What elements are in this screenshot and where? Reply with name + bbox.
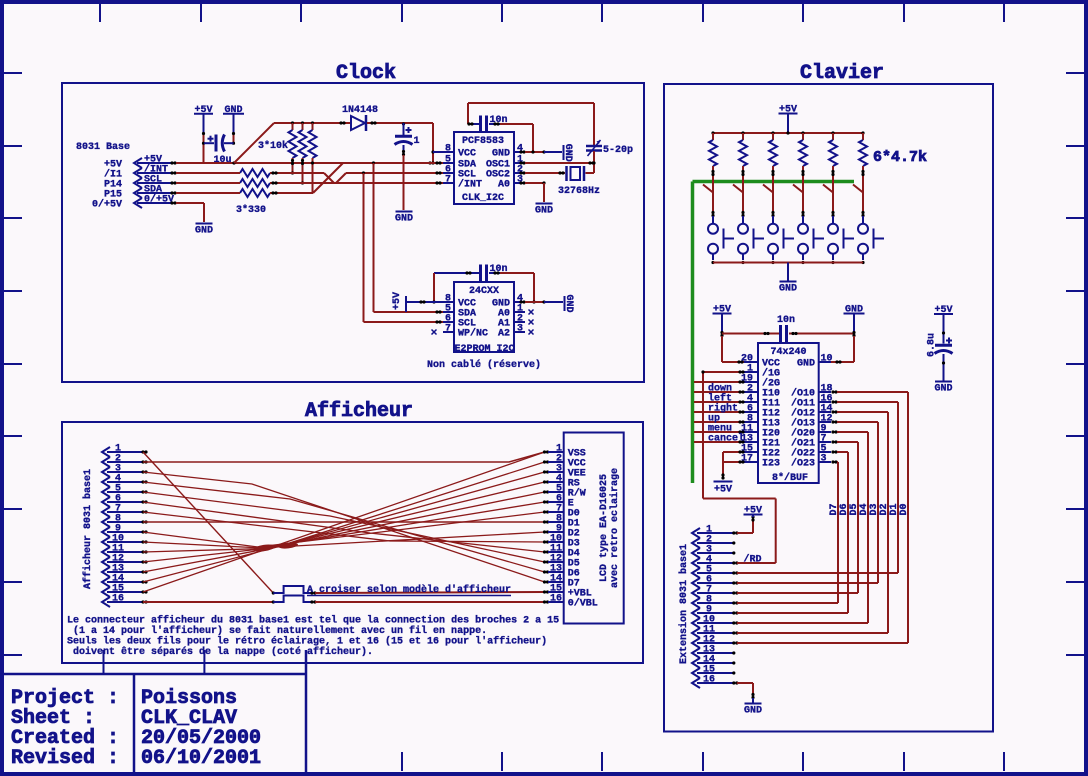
- wire +5V diagonal rise to diode row: [234, 123, 274, 163]
- svg-text:A2: A2: [498, 329, 510, 340]
- wire +5V row from connector: [176, 161, 433, 164]
- connector J2 pin 8: [102, 514, 148, 528]
- wire /2G row from green bus: [694, 380, 745, 383]
- power +5V symbol (below U3): [714, 482, 733, 496]
- wire output /O10 vertical: [831, 390, 908, 643]
- wire keyboard ground bus: [713, 262, 863, 264]
- wire VCC pin 8 branch: [433, 151, 454, 153]
- wire C3 right to GND pin 4 of U1: [500, 124, 533, 153]
- connector J4 pin 2 VCC: [543, 454, 586, 470]
- capacitor C5 10n (U2 decoupling): [434, 264, 508, 282]
- wire output /O21 vertical: [831, 440, 858, 593]
- wire C2 bottom to ground: [402, 150, 405, 210]
- wire 0/+5V row to ground: [176, 203, 204, 222]
- wire output /O22 vertical: [831, 450, 848, 613]
- svg-text:5-20p: 5-20p: [603, 145, 633, 156]
- wire key signal left: [694, 393, 745, 405]
- label Non cable (reserve): [427, 359, 541, 371]
- connector J1 pin 0/+5V (row 0/+5V): [92, 194, 177, 211]
- connector J3 pin 1: [692, 525, 735, 539]
- wire OSC2 row to crystal: [519, 171, 565, 174]
- connector J2 pin 14: [102, 574, 148, 588]
- resistor network R2 3*330: [236, 169, 270, 216]
- svg-text:GND: GND: [395, 214, 413, 225]
- svg-text:32768Hz: 32768Hz: [558, 186, 600, 197]
- svg-text:3*330: 3*330: [236, 204, 266, 216]
- svg-text:GND: GND: [492, 149, 510, 160]
- connector J2 pin 7: [102, 504, 148, 518]
- svg-text:avec retro eclairage: avec retro eclairage: [609, 468, 621, 588]
- wire output /O11 vertical: [831, 400, 898, 573]
- connector J4 pin 8 D1: [543, 514, 580, 530]
- wire J3 pin10 data line: [735, 621, 868, 624]
- U2 right pin stubs and numbers: [514, 294, 525, 335]
- U3 right pin stubs and numbers: [819, 354, 833, 465]
- wire J3 pin12 data line: [735, 641, 908, 644]
- wire GND pin4 row of U1: [519, 150, 562, 153]
- wire R1c pulldown lead: [311, 158, 314, 193]
- connector J4 pin 7 D0: [543, 504, 580, 520]
- svg-text:8031 Base: 8031 Base: [76, 142, 130, 153]
- svg-text:Clock: Clock: [336, 62, 396, 85]
- svg-text:74x240: 74x240: [771, 347, 807, 358]
- svg-text:7: 7: [445, 324, 451, 335]
- wire 0/VBL to LCD pin16: [315, 601, 545, 603]
- wire A0 pin to ground: [519, 181, 545, 202]
- capacitor C3 10n: [467, 115, 507, 133]
- wire switch SW3 to ground bus: [771, 254, 774, 264]
- title block frame: [0, 650, 306, 774]
- wire ribbon pin1 backlight diagonal: [143, 452, 275, 595]
- wire J3 pin5 data line: [735, 571, 898, 574]
- wire ribbon pin2: [143, 452, 545, 462]
- data bus labels D7..D0: [829, 503, 910, 515]
- connector J2 pin 3: [102, 464, 148, 478]
- svg-text:10: 10: [821, 354, 833, 365]
- wire J3 pin8 data line: [735, 601, 838, 604]
- wire +5V down to VCC pin 20 of U3: [720, 331, 744, 364]
- power +5V symbol (J3 pin1): [744, 506, 763, 517]
- title block labels: [11, 687, 119, 770]
- wire ribbon pin9: [143, 512, 545, 547]
- connector J2 pin 9: [102, 524, 148, 538]
- IC U2 24CXX: [454, 282, 515, 355]
- label LCD type EA-D16025: [599, 474, 610, 582]
- wire ribbon pin3: [143, 472, 545, 582]
- wire trimmer bottom lead to OSC2: [592, 151, 595, 173]
- wire diode cathode to node: [367, 121, 433, 125]
- wire +5V bus over keyboard resistors: [711, 131, 864, 134]
- wire trimmer top lead: [593, 103, 595, 145]
- connector J3 pin 8: [692, 595, 735, 609]
- title block values: [141, 687, 261, 770]
- wire +5V lead down to cap C1: [202, 132, 205, 163]
- wire OSC1 row: [519, 161, 594, 164]
- wire J3 pin7 data line: [735, 591, 858, 594]
- Clock section box: [62, 83, 644, 382]
- connector J4 pin 12 D5: [543, 554, 580, 570]
- wire switch SW1 to ground bus: [711, 254, 714, 264]
- connector J1 pin SCL (row P14): [104, 175, 177, 191]
- crystal X1 32768Hz: [558, 166, 600, 197]
- wire ribbon pin16 0/VBL: [143, 600, 275, 603]
- connector J2 pin 2: [102, 454, 148, 468]
- ground symbol right of U2 (rotated): [563, 294, 574, 312]
- connector J2 pin 10: [102, 534, 148, 548]
- wire key signal down: [694, 383, 745, 395]
- svg-text:doivent être séparés de la nap: doivent être séparés de la nappe (coté a…: [73, 646, 373, 658]
- connector J4 pin 9 D2: [543, 524, 580, 540]
- wire ground lead of keyboard: [787, 263, 789, 282]
- wire C5 right lead down to GND of U2: [500, 273, 536, 304]
- wire SDA drop to U2: [372, 161, 443, 313]
- ground symbol below C2: [395, 212, 413, 225]
- connector J1 8031 Base label: [76, 142, 130, 153]
- Afficheur section box: [62, 422, 643, 663]
- svg-text:24CXX: 24CXX: [469, 286, 499, 297]
- wire R1b pulldown lead: [301, 158, 304, 185]
- connector J2 pin 5: [102, 484, 148, 498]
- wire output /O20 vertical: [831, 430, 868, 623]
- resistor network R1 3*10k: [258, 123, 317, 158]
- connector J2 pin 15: [102, 584, 148, 598]
- svg-text:8*/BUF: 8*/BUF: [772, 472, 808, 484]
- svg-text:GND: GND: [535, 206, 553, 217]
- wire SDA row from connector to R2c: [176, 192, 240, 194]
- wire ribbon pin10: [143, 502, 545, 548]
- ground symbol below A0: [535, 204, 553, 217]
- Afficheur title: [305, 400, 413, 423]
- svg-text:1N4148: 1N4148: [342, 105, 378, 116]
- no-connect marks on U2 pins: [432, 310, 534, 335]
- wire crossing knot: [253, 542, 299, 553]
- svg-text:06/10/2001: 06/10/2001: [141, 747, 261, 770]
- connector J3 Extension 8031 base1 label: [678, 544, 690, 664]
- svg-text:/INT: /INT: [458, 179, 482, 191]
- IC U3 74x240: [758, 343, 819, 484]
- ground symbol right of U1 (rotated): [562, 144, 573, 162]
- connector J3 pin 16: [692, 675, 735, 689]
- wire J3 pin6 data line: [735, 581, 878, 584]
- wire SCL row from connector to R2b: [176, 182, 240, 184]
- svg-text:0/VBL: 0/VBL: [568, 598, 598, 610]
- wire SCL after R2b with crossover up: [270, 171, 443, 184]
- U3 left pin stubs and numbers: [741, 354, 758, 465]
- switch SW2: [738, 224, 764, 254]
- connector J2 pin 6: [102, 494, 148, 508]
- connector J4 pin 11 D4: [543, 544, 580, 560]
- svg-text:WP/NC: WP/NC: [458, 328, 488, 340]
- wire ribbon pin7: [143, 512, 545, 542]
- power +5V symbol (rotated, U2): [392, 292, 406, 312]
- wire GND down to pin 10 of U3: [831, 331, 856, 364]
- connector J4 pin 3 VEE: [543, 464, 586, 480]
- connector J4 LCD box: [564, 433, 624, 624]
- connector J3 pin 9: [692, 605, 735, 619]
- wire output /O23 vertical: [831, 460, 838, 603]
- svg-text:0/+5V: 0/+5V: [92, 199, 122, 211]
- capacitor C6 10n (U3 decoupling): [722, 315, 854, 342]
- wire switch SW5 to ground bus: [831, 254, 834, 264]
- connector J3 pin 15: [692, 665, 735, 679]
- wire switch SW2 to ground bus: [741, 254, 744, 264]
- svg-text:Non cablé (réserve): Non cablé (réserve): [427, 359, 541, 371]
- svg-text:10n: 10n: [777, 315, 795, 326]
- connector J3 pin 3: [692, 545, 735, 559]
- connector J3 pin 12: [692, 635, 735, 649]
- connector J4 pin 5 R/W: [543, 484, 586, 500]
- connector J3 pin 5: [692, 565, 735, 579]
- svg-text:(1 a 14 pour l'afficheur) se f: (1 a 14 pour l'afficheur) se fait nature…: [73, 625, 487, 637]
- svg-text:/O23: /O23: [791, 458, 815, 470]
- wire C5 left lead down to VCC of U2: [432, 273, 435, 304]
- wire ribbon pin4: [143, 482, 545, 572]
- wire vertical node to VCC pin 8 of U1: [428, 123, 434, 165]
- svg-text:Afficheur 8031 base1: Afficheur 8031 base1: [82, 469, 94, 589]
- connector J1 pin +5V (row +5V): [104, 155, 177, 171]
- svg-text:D0: D0: [899, 503, 910, 515]
- wire J3 pin16 to ground: [735, 681, 754, 703]
- wire J3 pin9 data line: [735, 611, 848, 614]
- wire ribbon pin15: [143, 452, 545, 592]
- connector J3 pin 13: [692, 645, 735, 659]
- svg-text:A croiser selon modèle d'affic: A croiser selon modèle d'afficheur: [307, 584, 511, 596]
- capacitor C7 6.8u with +5V and GND: [927, 305, 954, 395]
- svg-text:GND: GND: [562, 144, 573, 162]
- diode D1 1N4148: [342, 105, 378, 131]
- wire ribbon pin8: [143, 521, 545, 523]
- IC U1 PCF8583: [454, 132, 514, 204]
- svg-text:GND: GND: [195, 226, 213, 237]
- wire ribbon pin5: [143, 492, 545, 562]
- wire R1a pulldown lead: [291, 158, 294, 175]
- U1 right pin stubs and numbers: [514, 144, 525, 186]
- svg-text:GND: GND: [934, 384, 952, 395]
- svg-text:GND: GND: [797, 359, 815, 370]
- wire switch SW6 to ground bus: [861, 254, 864, 264]
- wire output /O12 vertical: [831, 410, 888, 633]
- connector J2 pin 1: [102, 444, 148, 458]
- wire keyboard column 1: [703, 166, 715, 224]
- twist symbol on 0/VBL wire: [273, 596, 316, 604]
- label avec retro eclairage: [609, 468, 621, 588]
- wire output /O13 vertical: [831, 420, 878, 583]
- svg-text:PCF8583: PCF8583: [462, 136, 504, 147]
- wire key signal menu: [694, 424, 745, 435]
- wire key signal up: [694, 414, 745, 425]
- ground symbol (J3 pin16): [744, 704, 762, 717]
- svg-text:VCC: VCC: [458, 149, 476, 160]
- connector J2 pin 13: [102, 564, 148, 578]
- svg-text:cancel: cancel: [708, 433, 744, 445]
- connector J4 pin 16 0/VBL: [543, 594, 598, 610]
- connector J4 pin 4 RS: [543, 474, 580, 490]
- U2 left pin stubs and numbers: [443, 294, 454, 335]
- capacitor C2 1 (electrolytic): [395, 123, 420, 152]
- svg-text:+5V: +5V: [392, 292, 403, 310]
- connector J1 pin SDA (row P15): [104, 185, 177, 201]
- connector J1 pin /INT (row /I1): [104, 164, 177, 181]
- wire ribbon pin14: [143, 462, 545, 582]
- note paragraph: [67, 615, 559, 659]
- ground symbol below keyboard: [779, 282, 797, 295]
- connector J4 pin 1 VSS: [543, 444, 586, 460]
- svg-text:I23: I23: [762, 459, 780, 470]
- wire GND pin4 of U2: [519, 300, 563, 303]
- wire unused inputs I22 I23 to +5V: [721, 450, 744, 479]
- svg-text:GND: GND: [563, 294, 574, 312]
- svg-text:GND: GND: [779, 284, 797, 295]
- trimmer capacitor C4 5-20p: [586, 140, 633, 156]
- wire SDA after R2c with crossover up to U1: [270, 161, 443, 194]
- svg-text:CLK_I2C: CLK_I2C: [462, 193, 504, 204]
- wire keyboard column 4: [793, 166, 805, 224]
- power +5V symbol (keyboard): [779, 105, 798, 134]
- wire ribbon pin13: [143, 472, 545, 572]
- wire diode row to pullups and D1: [274, 121, 351, 124]
- svg-text:3*10k: 3*10k: [258, 140, 288, 152]
- connector J3 pin 4: [692, 555, 735, 569]
- svg-text:Le connecteur afficheur du 803: Le connecteur afficheur du 8031 base1 es…: [67, 615, 559, 627]
- twist symbol on +VBL wire: [273, 586, 316, 595]
- connector J2 Afficheur 8031 base1 label: [82, 469, 94, 589]
- connector J2 pin 11: [102, 544, 148, 558]
- svg-text:7: 7: [445, 175, 451, 186]
- wire keyboard column 5: [823, 166, 835, 224]
- connector J2 pin 16: [102, 594, 148, 608]
- label A croiser selon modele d'afficheur: [307, 584, 511, 596]
- svg-text:Extension 8031 base1: Extension 8031 base1: [678, 544, 690, 664]
- svg-text:8: 8: [445, 144, 451, 155]
- svg-text:Afficheur: Afficheur: [305, 400, 413, 423]
- Clavier section box: [664, 84, 993, 732]
- svg-text:/RD: /RD: [744, 554, 762, 566]
- connector J3 pin 2: [692, 535, 735, 549]
- power GND symbol (top of Clock): [223, 105, 244, 133]
- wire /INT after R2a with crossover down: [270, 171, 443, 184]
- wire SCL drop to U2: [362, 171, 443, 323]
- Clavier title: [800, 62, 884, 85]
- svg-text:10u: 10u: [214, 155, 232, 166]
- U1 left pin stubs and numbers: [443, 144, 454, 186]
- wire crystal right to trimmer leg: [586, 172, 595, 174]
- connector J3 pin 6: [692, 575, 735, 589]
- power +5V symbol (top of Clock): [194, 105, 213, 133]
- wire J3 pin11 data line: [735, 631, 888, 634]
- wire switch SW4 to ground bus: [801, 254, 804, 264]
- Clock title: [336, 62, 396, 85]
- svg-text:3: 3: [821, 454, 827, 465]
- svg-text:1: 1: [414, 136, 420, 147]
- switch SW1: [708, 224, 734, 254]
- svg-text:Clavier: Clavier: [800, 62, 884, 85]
- switch SW6: [858, 224, 884, 254]
- capacitor C1 10u: [204, 135, 234, 167]
- wire keyboard column 6: [853, 166, 865, 224]
- wire key signal cancel: [694, 433, 745, 445]
- connector J3 pin 7: [692, 585, 735, 599]
- svg-text:E2PROM_I2C: E2PROM_I2C: [455, 344, 515, 355]
- wire keyboard column 2: [733, 166, 745, 224]
- wire +5V to VCC pin 8 of U2: [406, 300, 454, 303]
- green keyboard bus: [693, 182, 855, 484]
- wire /RD from J3 pin4 to U3 enables: [703, 499, 776, 566]
- connector J3 pin 14: [692, 655, 735, 669]
- connector J4 pin 14 D7: [543, 574, 580, 590]
- svg-text:+5V: +5V: [714, 485, 732, 496]
- connector J2 pin 4: [102, 474, 148, 488]
- connector J3 pin 11: [692, 625, 735, 639]
- connector J3 pin 10: [692, 615, 735, 629]
- svg-text:Seuls les deux fils pour le ré: Seuls les deux fils pour le rétro éclair…: [67, 636, 547, 648]
- resistor network R3 6*4.7k: [709, 133, 927, 166]
- wire keyboard column 3: [763, 166, 775, 224]
- svg-text:A0: A0: [498, 180, 510, 191]
- power GND symbol (U3): [844, 305, 865, 333]
- switch SW4: [798, 224, 824, 254]
- wire ribbon pin12: [143, 482, 545, 562]
- wire /INT row from connector to R2a: [176, 172, 240, 174]
- svg-text:Revised :: Revised :: [11, 747, 119, 770]
- wire top loop over U1: [468, 103, 594, 124]
- svg-text:6.8u: 6.8u: [927, 333, 938, 357]
- wire ribbon to LCD pin9: [277, 532, 545, 547]
- ground symbol below 0/+5V: [195, 224, 213, 237]
- connector J4 pin 15 +VBL: [543, 584, 592, 600]
- wire GND lead down to cap C1: [232, 132, 235, 145]
- connector J2 pin 12: [102, 554, 148, 568]
- svg-text:3: 3: [517, 324, 523, 335]
- connector J4 pin 6 E: [543, 494, 574, 510]
- svg-text:LCD type EA-D16025: LCD type EA-D16025: [599, 474, 610, 582]
- power +5V symbol (U3): [713, 305, 732, 333]
- svg-text:6*4.7k: 6*4.7k: [873, 149, 927, 166]
- svg-text:16: 16: [550, 594, 562, 605]
- wire /1G /2G enable chain: [701, 370, 744, 498]
- svg-text:GND: GND: [744, 706, 762, 717]
- switch SW3: [768, 224, 794, 254]
- switch SW5: [828, 224, 854, 254]
- wire +VBL to LCD pin15: [315, 592, 545, 593]
- connector J4 pin 10 D3: [543, 534, 580, 550]
- wire ribbon pin6: [143, 502, 545, 552]
- wire key signal right: [694, 403, 745, 415]
- connector J4 pin 13 D6: [543, 564, 580, 580]
- wire ribbon pin11: [143, 492, 545, 552]
- wire J3 pin1 to +5V: [735, 515, 754, 535]
